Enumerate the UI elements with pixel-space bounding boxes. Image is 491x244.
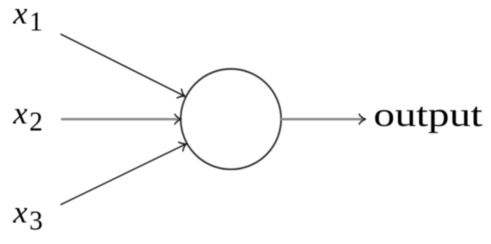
svg-text:3: 3 (29, 206, 43, 236)
svg-text:x: x (12, 0, 27, 30)
svg-text:output: output (374, 97, 484, 134)
svg-text:1: 1 (29, 7, 43, 37)
svg-text:x: x (12, 193, 27, 229)
svg-text:2: 2 (29, 107, 43, 137)
svg-text:x: x (12, 94, 27, 130)
